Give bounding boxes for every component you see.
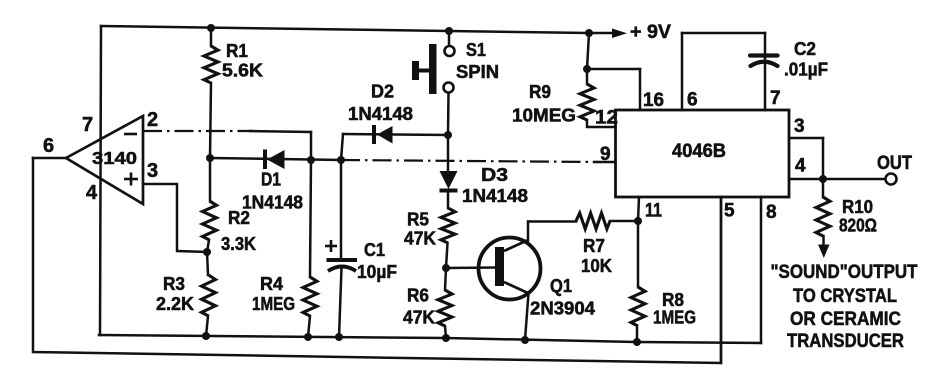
svg-text:1N4148: 1N4148 bbox=[242, 193, 303, 213]
svg-text:1N4148: 1N4148 bbox=[462, 186, 528, 206]
svg-text:820Ω: 820Ω bbox=[839, 216, 877, 236]
svg-text:3140: 3140 bbox=[92, 148, 137, 168]
svg-text:D1: D1 bbox=[261, 170, 281, 190]
svg-text:+ 9V: + 9V bbox=[630, 22, 671, 43]
svg-text:R3: R3 bbox=[163, 274, 185, 294]
svg-text:7: 7 bbox=[770, 88, 781, 109]
svg-text:"SOUND"OUTPUT: "SOUND"OUTPUT bbox=[771, 261, 918, 283]
svg-text:TRANSDUCER: TRANSDUCER bbox=[787, 330, 904, 352]
svg-text:1MEG: 1MEG bbox=[252, 294, 295, 314]
svg-text:R9: R9 bbox=[529, 82, 551, 102]
svg-text:1N4148: 1N4148 bbox=[348, 104, 413, 124]
svg-text:47K: 47K bbox=[403, 308, 435, 328]
svg-text:C1: C1 bbox=[364, 240, 385, 260]
svg-text:9: 9 bbox=[600, 144, 611, 165]
svg-text:R6: R6 bbox=[407, 286, 429, 306]
svg-text:11: 11 bbox=[645, 201, 662, 222]
svg-text:R4: R4 bbox=[260, 274, 283, 294]
svg-text:4: 4 bbox=[86, 182, 98, 204]
svg-text:2N3904: 2N3904 bbox=[530, 299, 595, 319]
svg-text:C2: C2 bbox=[794, 39, 816, 59]
svg-text:D2: D2 bbox=[371, 82, 394, 102]
svg-text:D3: D3 bbox=[481, 165, 508, 185]
svg-text:12: 12 bbox=[595, 108, 618, 129]
svg-text:47K: 47K bbox=[404, 229, 436, 249]
svg-text:S1: S1 bbox=[466, 40, 486, 60]
svg-text:OUT: OUT bbox=[877, 153, 912, 174]
svg-text:TO CRYSTAL: TO CRYSTAL bbox=[793, 285, 897, 307]
svg-text:R5: R5 bbox=[407, 210, 429, 230]
svg-text:5.6K: 5.6K bbox=[222, 61, 263, 81]
svg-text:3.3K: 3.3K bbox=[221, 234, 256, 254]
svg-text:SPIN: SPIN bbox=[456, 62, 499, 82]
svg-text:Q1: Q1 bbox=[550, 276, 572, 296]
svg-text:16: 16 bbox=[643, 90, 664, 111]
svg-text:6: 6 bbox=[687, 90, 698, 111]
svg-text:10K: 10K bbox=[581, 256, 612, 276]
svg-text:R7: R7 bbox=[583, 236, 605, 256]
svg-text:R1: R1 bbox=[226, 41, 248, 61]
svg-text:3: 3 bbox=[794, 116, 805, 137]
svg-text:1MEG: 1MEG bbox=[653, 308, 696, 328]
svg-text:5: 5 bbox=[724, 201, 735, 222]
svg-text:7: 7 bbox=[82, 114, 93, 136]
svg-text:10MEG: 10MEG bbox=[512, 106, 576, 126]
svg-text:.01µF: .01µF bbox=[784, 60, 828, 80]
svg-text:3: 3 bbox=[147, 160, 158, 182]
svg-text:R10: R10 bbox=[842, 197, 873, 217]
svg-text:8: 8 bbox=[766, 202, 777, 223]
svg-text:6: 6 bbox=[43, 135, 54, 157]
svg-text:2.2K: 2.2K bbox=[156, 294, 194, 314]
svg-text:2: 2 bbox=[147, 109, 158, 131]
svg-text:OR CERAMIC: OR CERAMIC bbox=[790, 308, 901, 330]
svg-text:4: 4 bbox=[795, 156, 806, 177]
svg-text:10µF: 10µF bbox=[357, 262, 397, 282]
svg-text:4046B: 4046B bbox=[672, 141, 726, 162]
